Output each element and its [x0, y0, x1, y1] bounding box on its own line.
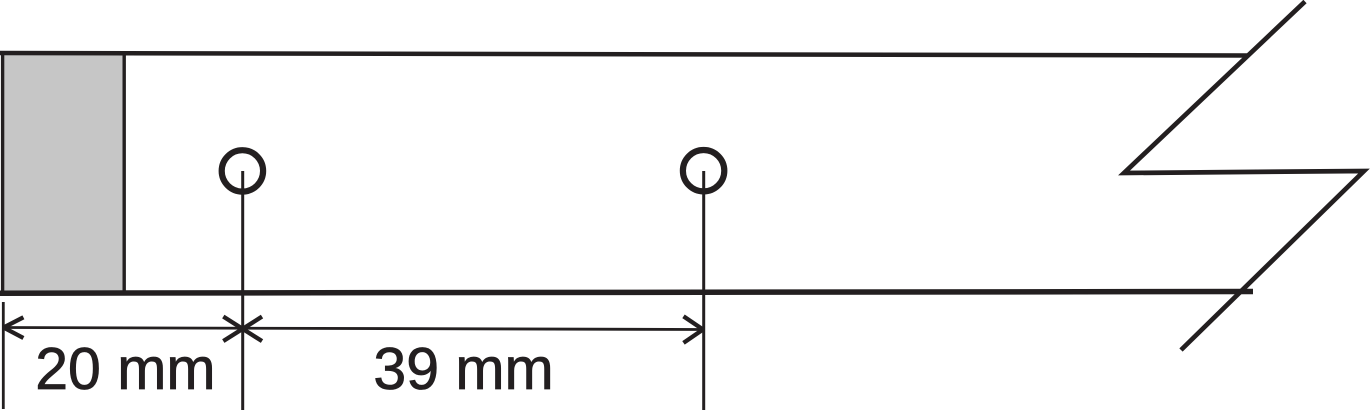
gray block right edge wire: [122, 54, 125, 291]
hole 2 circle: [683, 150, 724, 191]
gray end block fill: [3, 53, 125, 293]
dimension text 20 mm: [35, 336, 215, 402]
right arrowhead: [684, 316, 704, 343]
hole 1 circle: [222, 150, 263, 191]
strip bottom edge wire: [0, 292, 1253, 294]
svg-text:20 mm: 20 mm: [35, 336, 215, 402]
left arrowhead: [4, 317, 24, 338]
hole 1 centerline: [241, 171, 244, 410]
break symbol zigzag: [1124, 2, 1364, 351]
strip top edge wire: [0, 53, 1248, 56]
dimension text 39 mm: [373, 336, 553, 402]
hole 2 centerline: [702, 171, 705, 410]
strip left edge wire: [1, 51, 4, 296]
left extension line: [2, 302, 5, 409]
middle double arrowhead X: [223, 317, 262, 342]
svg-text:39 mm: 39 mm: [373, 336, 553, 402]
dimension line: [4, 328, 704, 330]
